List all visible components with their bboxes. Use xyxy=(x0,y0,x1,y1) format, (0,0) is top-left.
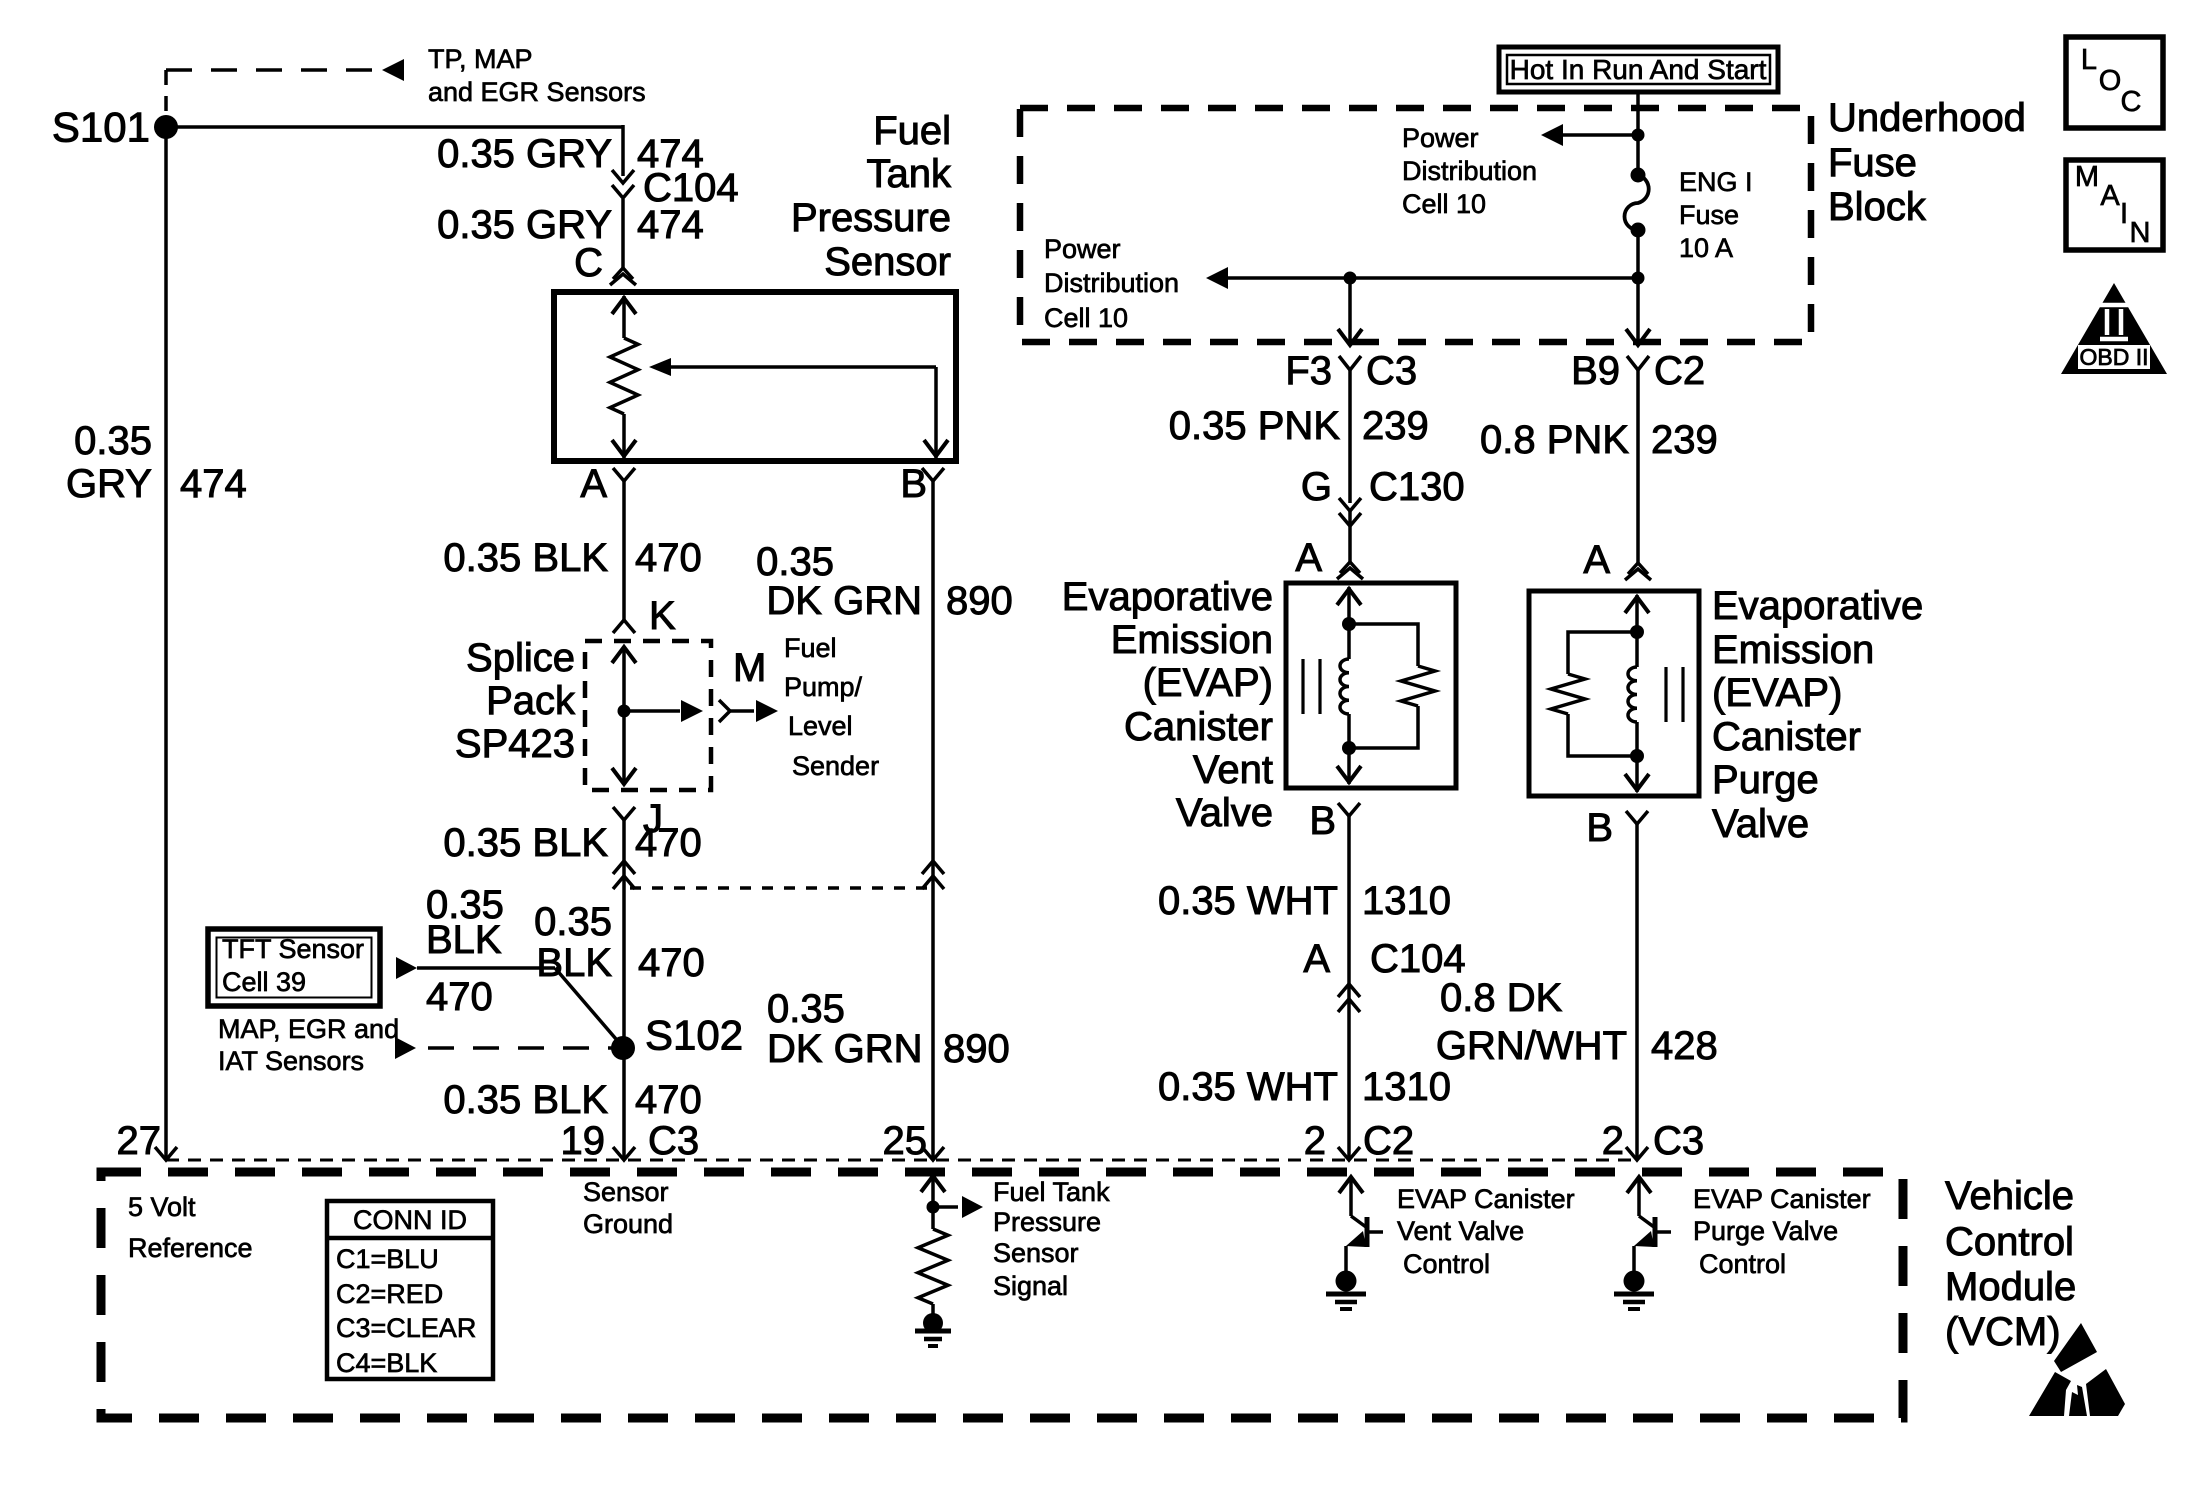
svg-text:10 A: 10 A xyxy=(1679,233,1733,263)
svg-text:Power: Power xyxy=(1044,234,1121,264)
label A C104 xyxy=(1303,937,1465,981)
svg-text:BLK: BLK xyxy=(426,918,502,962)
label TFT Sensor Cell 39 xyxy=(222,934,364,997)
label 19 C3 xyxy=(561,1119,700,1163)
label Evaporative Emission (EVAP) Canister Vent Valve xyxy=(1062,575,1273,835)
svg-text:Pump/: Pump/ xyxy=(784,672,863,702)
wire to power distribution cell 10 (upper) xyxy=(1541,124,1638,146)
label 0.35 WHT 1310 (upper) xyxy=(1158,879,1451,923)
wire hot feed into fuse block xyxy=(1636,92,1640,175)
svg-text:C3=CLEAR: C3=CLEAR xyxy=(336,1313,476,1343)
junction dot lower bus left xyxy=(1344,272,1357,285)
label F3 C3 xyxy=(1285,349,1417,393)
label C104 xyxy=(643,166,739,210)
wire S101 to pin 27 xyxy=(164,127,168,1160)
label 0.35 BLK 470 (below A) xyxy=(443,536,701,580)
label 0.35 BLK 470 (above pin 19) xyxy=(443,1078,701,1122)
label S101 xyxy=(52,104,150,151)
svg-text:Power: Power xyxy=(1402,123,1479,153)
svg-text:Fuse: Fuse xyxy=(1828,141,1917,185)
svg-text:S102: S102 xyxy=(645,1012,743,1059)
connector C104 (inline, left) xyxy=(612,170,634,198)
svg-text:470: 470 xyxy=(638,941,705,985)
label pin K xyxy=(649,594,676,638)
splice pack SP423 dashed box xyxy=(585,641,711,790)
svg-text:2: 2 xyxy=(1602,1119,1624,1163)
svg-text:C1=BLU: C1=BLU xyxy=(336,1244,439,1274)
wire B9 to purge valve pin A xyxy=(1636,370,1640,563)
svg-text:(VCM): (VCM) xyxy=(1945,1310,2061,1354)
svg-text:0.35: 0.35 xyxy=(534,900,612,944)
pin B of vent valve xyxy=(1338,803,1360,816)
svg-text:C3: C3 xyxy=(1366,349,1417,393)
svg-text:OBD II: OBD II xyxy=(2079,344,2148,370)
svg-text:Emission: Emission xyxy=(1712,628,1874,672)
symbol MAIN box xyxy=(2066,160,2163,250)
svg-text:Fuse: Fuse xyxy=(1679,200,1739,230)
svg-text:Control: Control xyxy=(1403,1249,1490,1279)
svg-text:C: C xyxy=(2121,86,2142,118)
sensor signal input wire with arrow xyxy=(921,1176,983,1229)
svg-text:A: A xyxy=(1295,536,1322,580)
label pin C xyxy=(574,241,603,285)
splice junction dot xyxy=(618,705,631,718)
label 0.35 DK GRN 890 (upper) xyxy=(756,540,1013,623)
svg-text:Signal: Signal xyxy=(993,1271,1068,1301)
svg-text:C: C xyxy=(574,241,603,285)
label purge valve pin B xyxy=(1586,806,1613,850)
label C3=CLEAR xyxy=(336,1313,476,1343)
wire pin A to pin K xyxy=(622,481,626,620)
label C4=BLK xyxy=(336,1348,437,1378)
svg-text:GRN/WHT: GRN/WHT xyxy=(1436,1024,1627,1068)
svg-text:Purge: Purge xyxy=(1712,758,1819,802)
label vent valve pin B xyxy=(1309,799,1336,843)
pin A of EVAP vent valve xyxy=(1337,562,1363,579)
svg-text:ENG I: ENG I xyxy=(1679,167,1753,197)
wire TFT sensor to S102 xyxy=(396,957,622,1046)
svg-text:Level: Level xyxy=(788,711,853,741)
svg-text:0.35 GRY: 0.35 GRY xyxy=(437,132,612,176)
component box Fuel Tank Pressure Sensor xyxy=(554,292,956,461)
svg-text:0.35: 0.35 xyxy=(767,987,845,1031)
wire vent valve B to pin 2 C2 xyxy=(1347,816,1351,1160)
svg-text:239: 239 xyxy=(1651,418,1718,462)
label Sensor Ground xyxy=(583,1177,673,1239)
label Fuel Tank Pressure Sensor Signal xyxy=(993,1177,1110,1301)
svg-text:Cell 10: Cell 10 xyxy=(1402,189,1486,219)
svg-text:0.35 PNK: 0.35 PNK xyxy=(1169,404,1341,448)
wire dashed MAP/EGR/IAT sensors to S102 xyxy=(395,1037,614,1059)
svg-text:G: G xyxy=(1301,465,1332,509)
svg-text:CONN ID: CONN ID xyxy=(353,1205,467,1235)
label 5 Volt Reference xyxy=(128,1192,253,1263)
svg-text:Pack: Pack xyxy=(486,679,576,723)
svg-text:GRY: GRY xyxy=(66,462,152,506)
label 0.35 PNK 239 xyxy=(1169,404,1429,448)
node S102 xyxy=(611,1036,635,1060)
svg-text:Distribution: Distribution xyxy=(1402,156,1537,186)
wire F3 to C130 xyxy=(1348,370,1352,503)
svg-text:C2: C2 xyxy=(1363,1119,1414,1163)
symbol ESD warning triangle xyxy=(2029,1323,2125,1416)
svg-text:Fuel: Fuel xyxy=(784,633,837,663)
purge valve internal resistor xyxy=(1551,632,1637,756)
pin A of sensor xyxy=(613,468,635,481)
label S102 xyxy=(645,1012,743,1059)
label pin B xyxy=(900,462,927,506)
label ENG I Fuse 10 A xyxy=(1679,167,1753,263)
pin 2 C3 of VCM xyxy=(1626,1147,1648,1160)
svg-text:DK GRN: DK GRN xyxy=(767,1027,923,1071)
label Hot In Run And Start xyxy=(1510,54,1767,85)
component box EVAP canister vent valve xyxy=(1286,583,1456,788)
label CONN ID xyxy=(353,1205,467,1235)
underhood fuse block dashed box xyxy=(1020,108,1811,342)
svg-text:DK GRN: DK GRN xyxy=(766,579,922,623)
label Splice Pack SP423 xyxy=(455,636,576,766)
vehicle control module dashed box xyxy=(101,1172,1903,1418)
svg-text:Emission: Emission xyxy=(1111,618,1273,662)
svg-text:Control: Control xyxy=(1699,1249,1786,1279)
pin B of sensor xyxy=(922,468,944,481)
thin dashed connector face line at VCM pins xyxy=(166,1159,1637,1162)
label G C130 xyxy=(1301,465,1465,509)
svg-text:EVAP Canister: EVAP Canister xyxy=(1397,1184,1575,1214)
wire purge valve B to pin 2 C3 xyxy=(1635,824,1639,1160)
pin A of EVAP purge valve xyxy=(1625,563,1651,580)
wire lower power distribution bus xyxy=(1206,267,1638,289)
svg-text:Valve: Valve xyxy=(1176,791,1273,835)
svg-text:25: 25 xyxy=(883,1119,928,1163)
component box TFT Sensor Cell 39 xyxy=(208,929,380,1006)
svg-text:474: 474 xyxy=(180,462,247,506)
wire fuse to lower distribution xyxy=(1636,230,1640,278)
svg-text:C3: C3 xyxy=(1653,1119,1704,1163)
svg-text:Underhood: Underhood xyxy=(1828,96,2026,140)
svg-text:Vent Valve: Vent Valve xyxy=(1397,1216,1524,1246)
svg-text:N: N xyxy=(2130,217,2151,249)
svg-text:C3: C3 xyxy=(648,1119,699,1163)
svg-text:B9: B9 xyxy=(1571,349,1620,393)
pin F3 C3 fork xyxy=(1339,356,1361,370)
vent valve solenoid coil xyxy=(1337,587,1361,784)
label C1=BLU xyxy=(336,1244,439,1274)
resistor fuel tank pressure sensor signal xyxy=(918,1229,948,1304)
svg-text:C2=RED: C2=RED xyxy=(336,1279,443,1309)
label 0.35 WHT 1310 (lower) xyxy=(1158,1065,1451,1109)
svg-text:5 Volt: 5 Volt xyxy=(128,1192,196,1222)
label M xyxy=(733,646,766,690)
svg-text:0.8 DK: 0.8 DK xyxy=(1440,976,1563,1020)
label EVAP Canister Vent Valve Control xyxy=(1397,1184,1575,1279)
pin J of splice pack xyxy=(613,807,635,820)
svg-text:Canister: Canister xyxy=(1712,715,1861,759)
wire branch to B9 with arrow xyxy=(1626,278,1650,345)
svg-text:Hot In Run And Start: Hot In Run And Start xyxy=(1510,54,1767,85)
svg-text:Pressure: Pressure xyxy=(993,1207,1101,1237)
svg-text:F3: F3 xyxy=(1285,349,1332,393)
wire pin J to S102 to pin 19 xyxy=(622,820,626,1160)
svg-text:C2: C2 xyxy=(1654,349,1705,393)
connector double chevron on ground wire xyxy=(613,861,635,889)
svg-text:A: A xyxy=(1303,937,1330,981)
svg-text:474: 474 xyxy=(637,203,704,247)
purge valve core marks xyxy=(1666,667,1683,722)
label 0.35 GRY 474 (upper) xyxy=(437,132,704,176)
svg-text:IAT Sensors: IAT Sensors xyxy=(218,1046,364,1076)
svg-text:Sender: Sender xyxy=(792,751,879,781)
connector double chevron on DK GRN wire xyxy=(922,861,944,889)
CONN ID table xyxy=(327,1201,493,1379)
svg-text:C104: C104 xyxy=(1370,937,1466,981)
svg-text:Block: Block xyxy=(1828,185,1927,229)
potentiometer inside sensor (resistor element) xyxy=(610,296,638,458)
label 0.8 PNK 239 xyxy=(1480,418,1718,462)
label pin J xyxy=(643,797,663,841)
svg-text:0.8 PNK: 0.8 PNK xyxy=(1480,418,1629,462)
svg-text:MAP, EGR and: MAP, EGR and xyxy=(218,1014,399,1044)
vent valve junction dots xyxy=(1342,617,1356,755)
label 2 C3 xyxy=(1602,1119,1704,1163)
label 0.35 DK GRN 890 (lower) xyxy=(767,987,1010,1071)
svg-text:TP, MAP: TP, MAP xyxy=(428,44,533,74)
ground for purge valve driver xyxy=(1614,1271,1654,1310)
svg-text:0.35 BLK: 0.35 BLK xyxy=(443,821,608,865)
svg-text:Fuel: Fuel xyxy=(873,109,951,153)
label vent valve pin A xyxy=(1295,536,1322,580)
wire branch to F3 with arrow xyxy=(1338,278,1362,345)
svg-text:Module: Module xyxy=(1945,1265,2076,1309)
svg-text:2: 2 xyxy=(1304,1119,1326,1163)
wire C130 to vent valve pin A xyxy=(1348,511,1352,562)
svg-text:470: 470 xyxy=(635,536,702,580)
svg-text:470: 470 xyxy=(635,821,702,865)
svg-text:EVAP Canister: EVAP Canister xyxy=(1693,1184,1871,1214)
svg-text:L: L xyxy=(2081,44,2097,76)
svg-text:Evaporative: Evaporative xyxy=(1062,575,1273,619)
junction dot lower bus right xyxy=(1632,272,1645,285)
svg-text:Canister: Canister xyxy=(1124,705,1273,749)
label 2 C2 xyxy=(1304,1119,1414,1163)
label TP, MAP and EGR Sensors xyxy=(428,44,646,107)
wiper arrow of potentiometer xyxy=(649,358,948,458)
svg-text:470: 470 xyxy=(426,975,493,1019)
wire splice to fuel pump/level sender (M) xyxy=(624,700,778,722)
pin B of purge valve xyxy=(1626,811,1648,824)
svg-text:(EVAP): (EVAP) xyxy=(1143,661,1273,705)
svg-text:Pressure: Pressure xyxy=(791,196,951,240)
wire dashed reference from S101 to TP/MAP and EGR sensors xyxy=(166,59,404,113)
label purge valve pin A xyxy=(1583,538,1610,582)
svg-text:Ground: Ground xyxy=(583,1209,673,1239)
label 0.35 GRY 474 (vertical run) xyxy=(66,419,247,506)
pin 27 of VCM xyxy=(155,1147,177,1160)
driver transistor for vent valve control xyxy=(1339,1177,1383,1272)
svg-text:Sensor: Sensor xyxy=(993,1238,1079,1268)
label Fuel Pump/Level Sender xyxy=(784,633,879,781)
purge valve solenoid coil xyxy=(1625,595,1649,792)
svg-text:428: 428 xyxy=(1651,1024,1718,1068)
svg-text:890: 890 xyxy=(946,579,1013,623)
symbol OBD II triangle xyxy=(2061,283,2167,374)
svg-text:A: A xyxy=(580,462,607,506)
label 0.35 GRY 474 (lower) xyxy=(437,203,704,247)
label 0.35 BLK 470 (below J) xyxy=(443,821,701,865)
svg-text:B: B xyxy=(1586,806,1613,850)
svg-text:A: A xyxy=(1583,538,1610,582)
svg-text:Evaporative: Evaporative xyxy=(1712,584,1923,628)
svg-text:0.35 WHT: 0.35 WHT xyxy=(1158,879,1338,923)
svg-text:0.35 BLK: 0.35 BLK xyxy=(443,536,608,580)
wire S101 to C104 xyxy=(166,125,623,176)
label Fuel Tank Pressure Sensor xyxy=(791,109,952,284)
svg-text:19: 19 xyxy=(561,1119,606,1163)
label EVAP Canister Purge Valve Control xyxy=(1693,1184,1871,1279)
svg-text:Sensor: Sensor xyxy=(583,1177,669,1207)
pin K of splice pack xyxy=(613,620,635,633)
wire pin B to pin 25 xyxy=(931,481,935,1160)
pin B9 C2 fork xyxy=(1627,356,1649,370)
svg-text:B: B xyxy=(900,462,927,506)
label 0.35 BLK (TFT branch) xyxy=(426,883,504,1019)
label 0.8 DK GRN/WHT 428 xyxy=(1436,976,1718,1068)
node S101 xyxy=(154,115,178,139)
label Underhood Fuse Block xyxy=(1828,96,2026,229)
svg-text:M: M xyxy=(733,646,766,690)
svg-text:Sensor: Sensor xyxy=(824,240,951,284)
svg-text:S101: S101 xyxy=(52,104,150,151)
component box Hot In Run And Start xyxy=(1499,47,1778,92)
svg-text:Valve: Valve xyxy=(1712,802,1809,846)
label B9 C2 xyxy=(1571,349,1705,393)
svg-text:Vehicle: Vehicle xyxy=(1945,1174,2074,1218)
junction dot at upper distribution tap xyxy=(1632,129,1645,142)
svg-text:1310: 1310 xyxy=(1362,879,1451,923)
svg-text:Splice: Splice xyxy=(466,636,575,680)
svg-text:Cell 39: Cell 39 xyxy=(222,967,306,997)
pin 19 C3 of VCM xyxy=(613,1147,635,1160)
svg-text:B: B xyxy=(1309,799,1336,843)
svg-text:C4=BLK: C4=BLK xyxy=(336,1348,437,1378)
svg-text:I: I xyxy=(2120,198,2128,230)
label MAP, EGR and IAT Sensors xyxy=(218,1014,399,1076)
pin 25 of VCM xyxy=(922,1147,944,1160)
svg-text:Distribution: Distribution xyxy=(1044,268,1179,298)
svg-text:Fuel Tank: Fuel Tank xyxy=(993,1177,1110,1207)
label 27 xyxy=(117,1119,162,1163)
driver transistor for purge valve control xyxy=(1627,1177,1671,1272)
pin C of fuel tank pressure sensor xyxy=(610,268,636,285)
label pin A xyxy=(580,462,607,506)
svg-text:Tank: Tank xyxy=(867,152,952,196)
label 25 xyxy=(883,1119,928,1163)
svg-text:M: M xyxy=(2075,161,2099,193)
svg-text:(EVAP): (EVAP) xyxy=(1712,671,1842,715)
label 0.35 BLK 470 (main, at S102) xyxy=(534,900,705,985)
connector A C104 double chevron xyxy=(1338,984,1360,1012)
svg-text:O: O xyxy=(2099,65,2122,97)
label C2=RED xyxy=(336,1279,443,1309)
svg-text:0.35 WHT: 0.35 WHT xyxy=(1158,1065,1338,1109)
svg-text:27: 27 xyxy=(117,1119,162,1163)
fuse ENG I 10A xyxy=(1625,168,1649,238)
ground for vent valve driver xyxy=(1326,1271,1366,1310)
vent valve internal resistor xyxy=(1349,624,1435,748)
svg-text:1310: 1310 xyxy=(1362,1065,1451,1109)
pin 2 C2 of VCM xyxy=(1338,1147,1360,1160)
svg-text:Control: Control xyxy=(1945,1220,2074,1264)
svg-text:K: K xyxy=(649,594,676,638)
splice pack internal wire xyxy=(612,647,636,784)
svg-text:Vent: Vent xyxy=(1193,748,1273,792)
thin dashed line between harness connectors xyxy=(630,886,928,890)
svg-text:Cell 10: Cell 10 xyxy=(1044,303,1128,333)
vent valve core marks xyxy=(1303,659,1320,714)
svg-text:0.35: 0.35 xyxy=(74,419,152,463)
svg-text:890: 890 xyxy=(943,1027,1010,1071)
svg-text:TFT Sensor: TFT Sensor xyxy=(222,934,364,964)
svg-text:239: 239 xyxy=(1362,404,1429,448)
label Power Distribution Cell 10 (upper) xyxy=(1402,123,1537,219)
svg-text:0.35: 0.35 xyxy=(756,540,834,584)
ground for sensor signal resistor xyxy=(915,1304,951,1346)
component box EVAP canister purge valve xyxy=(1529,591,1699,796)
svg-text:Purge Valve: Purge Valve xyxy=(1693,1216,1838,1246)
connector G C130 xyxy=(1339,498,1361,526)
wire C104 to pin C xyxy=(621,199,625,268)
label Power Distribution Cell 10 (lower) xyxy=(1044,234,1179,333)
label Vehicle Control Module (VCM) xyxy=(1945,1174,2076,1354)
svg-text:Reference: Reference xyxy=(128,1233,253,1263)
svg-text:SP423: SP423 xyxy=(455,722,575,766)
svg-text:C130: C130 xyxy=(1369,465,1465,509)
svg-text:0.35 BLK: 0.35 BLK xyxy=(443,1078,608,1122)
purge valve junction dots xyxy=(1630,625,1644,763)
svg-text:A: A xyxy=(2100,180,2120,212)
symbol LOC box xyxy=(2066,37,2163,128)
svg-text:470: 470 xyxy=(635,1078,702,1122)
svg-text:and EGR Sensors: and EGR Sensors xyxy=(428,77,646,107)
svg-text:BLK: BLK xyxy=(536,941,612,985)
label Evaporative Emission (EVAP) Canister Purge Valve xyxy=(1712,584,1923,846)
